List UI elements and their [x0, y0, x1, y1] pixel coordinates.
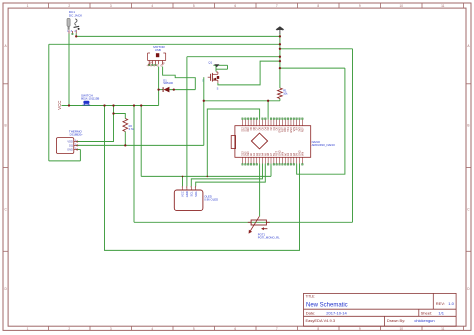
- svg-text:10: 10: [399, 327, 403, 331]
- svg-text:6: 6: [234, 327, 236, 331]
- potentiometer POT1 symbol: [248, 216, 270, 233]
- ic NANO arduino nano symbol: [231, 118, 311, 165]
- wire diode cathode to USB net: [159, 89, 164, 91]
- svg-text:11: 11: [441, 4, 445, 8]
- wire OLED pin4 to nano: [196, 164, 266, 187]
- switch SWITCH 801K-101115B symbol: [83, 101, 91, 106]
- display OLED 0.96 symbol: [174, 186, 203, 210]
- svg-text:4: 4: [151, 327, 153, 331]
- svg-text:SCL: SCL: [189, 191, 193, 197]
- svg-text:USB: USB: [155, 48, 161, 52]
- svg-text:8: 8: [317, 4, 319, 8]
- svg-text:2: 2: [68, 327, 70, 331]
- svg-text:Drawn By:: Drawn By:: [387, 318, 405, 323]
- wire nano Vin loop: [297, 68, 345, 174]
- wire R2 top elbow: [114, 114, 126, 119]
- wire USB pin4 down to VCC rail: [158, 67, 160, 106]
- wire DQ riser to gate net: [203, 77, 205, 145]
- junction dot 3: [112, 104, 114, 106]
- svg-text:Date:: Date:: [306, 311, 316, 316]
- svg-text:7: 7: [276, 327, 278, 331]
- wire DC jack pin3 stub: [75, 34, 77, 37]
- svg-text:SR5100: SR5100: [163, 81, 173, 85]
- svg-text:DC JACK: DC JACK: [69, 14, 83, 18]
- junction dot 6: [112, 112, 114, 114]
- svg-text:3: 3: [110, 4, 112, 8]
- svg-text:GND: GND: [185, 191, 189, 197]
- wire OLED pin2 top to power net: [187, 56, 280, 58]
- resistor R2 zigzag: [123, 119, 128, 132]
- svg-text:0.96 OLED: 0.96 OLED: [204, 197, 218, 201]
- svg-text:4: 4: [195, 187, 196, 189]
- wire diode anode line: [169, 89, 195, 91]
- svg-text:VIN: VIN: [301, 152, 304, 156]
- junction dot 7: [124, 144, 126, 146]
- svg-text:1: 1: [27, 4, 29, 8]
- svg-text:1: 1: [182, 187, 183, 189]
- wire pot wiper from nano: [259, 164, 261, 217]
- junction dot 9: [157, 88, 159, 90]
- wire thermo DQ line: [77, 144, 204, 146]
- svg-text:S: S: [217, 87, 219, 91]
- svg-text:5: 5: [193, 327, 195, 331]
- wire bottom ground loop: [105, 106, 300, 251]
- wire power to pot right top: [280, 48, 353, 50]
- title block frame: [304, 293, 457, 326]
- svg-text:REV:: REV:: [436, 301, 445, 306]
- junction dot 16: [279, 67, 281, 69]
- svg-text:B: B: [467, 124, 469, 128]
- wire power flag stem net: [279, 34, 281, 68]
- wire gate horizontal to R1: [204, 100, 280, 102]
- wire OLED pin2 long riser: [186, 57, 188, 187]
- wire VCC rail: [62, 105, 159, 107]
- wire net L1 to nano pin: [270, 164, 272, 177]
- wire R1 top lead: [279, 68, 281, 88]
- svg-text:chickengun: chickengun: [414, 318, 434, 323]
- svg-text:4: 4: [151, 4, 153, 8]
- wire mosfet drain loop: [213, 65, 227, 71]
- wire thermo GND pin drop: [79, 150, 81, 161]
- svg-text:Q1: Q1: [208, 60, 212, 64]
- svg-text:Sheet:: Sheet:: [421, 311, 433, 316]
- connector MOTOR USB symbol: [146, 53, 165, 68]
- svg-text:VDD: VDD: [67, 140, 73, 144]
- sensor THERMO DS18B20+ symbol: [56, 138, 78, 154]
- wire top net line 2: [49, 43, 280, 45]
- junction dot 15: [279, 60, 281, 62]
- svg-text:1/1: 1/1: [438, 311, 444, 316]
- svg-text:New Schematic: New Schematic: [306, 303, 348, 309]
- wire thermo GND return bottom: [49, 160, 81, 162]
- power flag arrow +5V: [276, 26, 284, 34]
- junction dot 11: [279, 35, 281, 37]
- svg-text:6: 6: [234, 4, 236, 8]
- wire pot right riser: [352, 49, 354, 223]
- svg-text:ARDUINO_NANO: ARDUINO_NANO: [312, 143, 336, 147]
- resistor R1 zigzag: [278, 88, 283, 99]
- junction dot 2: [103, 104, 105, 106]
- svg-text:801K-101115B: 801K-101115B: [81, 97, 99, 101]
- svg-text:10: 10: [399, 4, 403, 8]
- wire pot line horizontal: [134, 221, 353, 223]
- junction dot 17: [267, 100, 269, 102]
- wire R1 bottom lead: [279, 99, 281, 101]
- svg-text:10k: 10k: [283, 91, 288, 95]
- wire nano D7 elbow: [207, 109, 259, 176]
- svg-text:2017-10-14: 2017-10-14: [326, 311, 347, 316]
- wire power to Vin loop top: [280, 67, 345, 69]
- svg-text:VCC: VCC: [57, 101, 62, 110]
- transistor Q1 mosfet symbol: [208, 72, 220, 83]
- diode D1 SR5100 symbol: [163, 87, 169, 93]
- junction dot 13: [279, 48, 281, 50]
- svg-text:VCC: VCC: [181, 191, 185, 197]
- junction dot 10: [173, 88, 175, 90]
- net flag on mosfet drain: [214, 64, 219, 67]
- svg-text:DQ: DQ: [69, 144, 73, 148]
- svg-text:4.7k: 4.7k: [129, 127, 135, 131]
- svg-text:REF: REF: [301, 127, 304, 132]
- svg-text:1.0: 1.0: [448, 301, 454, 306]
- junction dot 8: [75, 35, 77, 37]
- connector DC1 DC jack symbol: [67, 18, 80, 34]
- junction dot 14: [279, 56, 281, 58]
- svg-text:7: 7: [276, 4, 278, 8]
- svg-text:2: 2: [68, 4, 70, 8]
- wire DC jack pin1 to VCC rail: [68, 34, 70, 106]
- svg-text:11: 11: [441, 327, 445, 331]
- junction dot nano d7 tee: [207, 176, 209, 178]
- wire OLED pin3 to nano: [191, 164, 262, 187]
- svg-text:EasyEDA V4.9.3: EasyEDA V4.9.3: [306, 318, 336, 323]
- svg-text:2: 2: [186, 187, 187, 189]
- wire R2 bottom lead: [124, 132, 126, 146]
- wire top net line 1: [76, 35, 280, 37]
- wire mosfet source to power: [218, 61, 280, 85]
- wire net L1 riser from rail: [140, 106, 142, 177]
- wire pot rail riser: [133, 106, 135, 223]
- junction dot 4: [133, 104, 135, 106]
- svg-text:DS18B20+: DS18B20+: [70, 132, 84, 136]
- junction dot 5: [140, 104, 142, 106]
- svg-text:B: B: [5, 124, 7, 128]
- junction dot 1: [68, 104, 70, 106]
- svg-text:G: G: [202, 78, 204, 82]
- junction dot 12: [279, 43, 281, 45]
- svg-text:POTI_MONO_RL: POTI_MONO_RL: [258, 236, 280, 240]
- svg-text:5: 5: [193, 4, 195, 8]
- junction dot oled pin1 tee: [182, 176, 184, 178]
- svg-text:SDA: SDA: [194, 191, 198, 197]
- wire gate net to nano D5: [267, 101, 269, 120]
- svg-text:8: 8: [317, 327, 319, 331]
- svg-text:GND: GND: [67, 148, 73, 152]
- wire thermo VDD to rail: [77, 106, 114, 142]
- svg-text:9: 9: [359, 4, 361, 8]
- wire OLED pin1 drop: [182, 176, 184, 186]
- svg-text:9: 9: [359, 327, 361, 331]
- svg-text:3: 3: [110, 327, 112, 331]
- svg-text:1: 1: [27, 327, 29, 331]
- svg-text:3: 3: [190, 187, 191, 189]
- wire left drop of top net line 2: [48, 44, 50, 161]
- junction dot 18: [203, 100, 205, 102]
- svg-text:TITLE:: TITLE:: [306, 295, 316, 299]
- wire thermo GND pin stub: [77, 149, 80, 151]
- wire net L1 horizontal: [141, 175, 271, 177]
- wire USB pin5 stair to diode: [163, 67, 196, 90]
